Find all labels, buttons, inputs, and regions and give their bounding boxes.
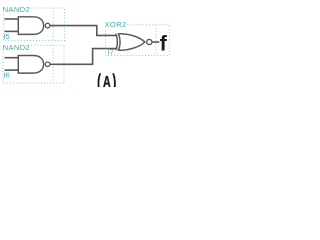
wire from NAND I5 output to XOR I7 top input (50, 26, 117, 36)
selection box around XOR gate I7 (106, 25, 170, 56)
nand gate I5 body (18, 17, 43, 35)
wire input pin 1 of NAND I6 (5, 57, 19, 59)
wire from XOR I7 bubble to node f (153, 41, 160, 43)
nand gate I5 output inversion bubble (45, 23, 50, 28)
svg-text:I6: I6 (4, 71, 10, 80)
svg-text:XOR2: XOR2 (105, 20, 127, 29)
background (0, 0, 172, 87)
wire input pin 2 of NAND I6 (5, 69, 19, 71)
svg-text:A: A (103, 73, 111, 87)
svg-text:NAND2: NAND2 (3, 43, 30, 52)
xor gate I7 body (118, 34, 144, 50)
wire input pin 2 of NAND I5 (5, 30, 19, 32)
wire input pin 1 of NAND I5 (5, 18, 19, 20)
svg-text:(: ( (97, 71, 101, 87)
label NAND2 (type of gate I6) (2, 42, 29, 50)
nand gate I6 output inversion bubble (45, 62, 50, 67)
wire from NAND I6 output to XOR I7 bottom input (50, 49, 117, 65)
selection box around NAND gate I6 (3, 45, 64, 83)
label XOR2 (type of gate I7) (104, 20, 127, 28)
svg-text:I5: I5 (4, 32, 10, 41)
svg-text:f: f (160, 32, 168, 56)
svg-text:): ) (112, 71, 116, 87)
xor gate I7 input-side arc (116, 34, 118, 50)
selection box around NAND gate I5 (4, 8, 65, 41)
caption (A) (97, 71, 116, 95)
xor gate I7 output inversion bubble (147, 39, 152, 44)
svg-text:NAND2: NAND2 (3, 5, 30, 14)
label NAND2 (type of gate I5) (2, 5, 29, 13)
nand gate I6 body (18, 56, 43, 74)
